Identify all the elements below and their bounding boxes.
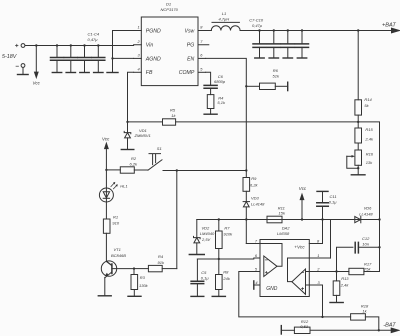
svg-text:LL4148: LL4148 — [251, 201, 265, 206]
pin 8 Vsw — [198, 30, 206, 32]
svg-text:6800p: 6800p — [214, 79, 226, 84]
svg-text:COMP: COMP — [179, 70, 195, 76]
op-amp DA2 LM358 box — [260, 240, 309, 297]
pin 1 PGND — [134, 30, 142, 32]
resistor R15 — [357, 122, 359, 128]
capacitor C12 — [355, 242, 379, 253]
svg-text:1: 1 — [317, 253, 319, 258]
resistor R7 — [218, 220, 220, 232]
pin 5 COMP — [198, 71, 206, 73]
svg-text:VT1: VT1 — [114, 247, 121, 252]
node EN/R6 — [245, 85, 247, 87]
node line A / R7 — [218, 218, 220, 220]
ground (C1) — [52, 72, 61, 74]
node C12 right — [378, 246, 380, 248]
capacitor C7 — [253, 31, 266, 59]
ground (C9) — [283, 57, 292, 59]
ground (COMP network) — [204, 113, 217, 115]
svg-text:+BAT: +BAT — [382, 23, 396, 29]
svg-text:6: 6 — [255, 253, 258, 258]
svg-text:51k: 51k — [273, 74, 280, 79]
wiper R16 — [347, 155, 358, 168]
svg-text:R14: R14 — [364, 97, 372, 102]
svg-text:15k: 15k — [279, 211, 286, 216]
svg-text:Vsw: Vsw — [184, 28, 195, 34]
capacitor C9 — [281, 31, 294, 59]
svg-text:-BAT: -BAT — [383, 322, 396, 328]
pin 4 — [254, 284, 260, 286]
wire FB pin4 down — [128, 72, 134, 122]
svg-text:R4: R4 — [158, 254, 164, 259]
node FB — [126, 121, 128, 123]
pin 7 — [254, 243, 260, 245]
transistor VT1 — [101, 261, 134, 296]
label C7-C10 — [249, 17, 264, 28]
svg-text:NCP3170: NCP3170 — [161, 7, 179, 12]
svg-text:C11: C11 — [330, 194, 337, 199]
wire EN down — [206, 58, 247, 170]
svg-text:PG: PG — [187, 43, 195, 49]
svg-text:2,4k: 2,4k — [340, 283, 350, 288]
resistor R4 (base) — [134, 268, 148, 270]
svg-text:91k: 91k — [158, 260, 165, 265]
ground (shunt left bar) — [280, 326, 282, 334]
wire COMP to compensation network — [206, 72, 211, 85]
pin 6 EN — [198, 57, 206, 59]
svg-text:10n: 10n — [362, 241, 369, 246]
svg-text:0,47μ: 0,47μ — [252, 23, 263, 28]
svg-text:130k: 130k — [139, 283, 149, 288]
pin 7 PG (stub) — [198, 44, 209, 46]
svg-text:7: 7 — [200, 39, 203, 44]
ground (R13) — [330, 302, 343, 304]
power flag Vcc (switch branch, up arrow) — [105, 143, 109, 170]
capacitor C1 — [51, 46, 64, 73]
svg-text:Vcc: Vcc — [102, 137, 110, 142]
node AGND — [111, 57, 113, 59]
wire pin3 down — [322, 285, 324, 317]
wire FB node to right vertical — [358, 122, 379, 272]
op-amp/IC D1 NCP3170 box — [141, 17, 198, 86]
svg-text:7: 7 — [255, 239, 258, 244]
svg-text:8: 8 — [200, 25, 203, 30]
label C1-C4 value — [88, 32, 100, 43]
pin 3 AGND — [134, 57, 142, 59]
svg-text:0,51: 0,51 — [300, 324, 308, 329]
svg-text:+Vcc: +Vcc — [294, 244, 305, 249]
resistor R1 — [103, 219, 110, 233]
svg-text:5: 5 — [255, 267, 258, 272]
resistor R14 — [355, 100, 362, 115]
wire pin2 up to C12 — [337, 247, 353, 271]
svg-text:R5: R5 — [170, 108, 176, 113]
svg-text:5k: 5k — [364, 103, 369, 108]
svg-text:2: 2 — [316, 267, 320, 272]
ground (C11, top bar) — [317, 190, 328, 192]
pin 6 — [254, 257, 260, 259]
svg-text:C1-C4: C1-C4 — [88, 32, 100, 37]
ground (C8) — [269, 57, 278, 59]
svg-text:C7-C10: C7-C10 — [249, 17, 264, 22]
resistor R6 — [246, 85, 259, 87]
capacitor C2 — [64, 46, 77, 73]
node input/Vcc — [35, 44, 37, 46]
pin 2 Vin — [134, 44, 142, 46]
svg-text:Vcc: Vcc — [299, 186, 307, 191]
svg-text:5,1k: 5,1k — [217, 100, 226, 105]
capacitor C5 — [191, 259, 204, 296]
node switch/EN — [245, 169, 247, 171]
switch S1 — [148, 154, 162, 171]
svg-text:13k: 13k — [366, 160, 373, 165]
capacitor C10 — [296, 31, 309, 59]
svg-text:24k: 24k — [222, 276, 230, 281]
svg-text:75k: 75k — [364, 266, 371, 271]
resistor R17 — [337, 271, 349, 273]
svg-text:L1: L1 — [222, 11, 226, 16]
ground (VD1) — [121, 149, 134, 151]
ground (C5) — [191, 295, 204, 297]
svg-text:GND: GND — [266, 286, 278, 292]
resistor R9 — [243, 178, 250, 192]
svg-text:4,7μH: 4,7μH — [219, 16, 230, 21]
ground (R6, side bar) — [287, 82, 289, 90]
svg-text:6,2k: 6,2k — [130, 162, 139, 167]
svg-text:Vcc: Vcc — [33, 81, 41, 86]
svg-text:LL4148: LL4148 — [359, 211, 373, 216]
ground (C10) — [297, 57, 306, 59]
svg-text:VD6: VD6 — [364, 206, 373, 211]
svg-text:S1: S1 — [157, 146, 162, 151]
svg-text:AGND: AGND — [145, 56, 161, 62]
ground (VT1 emitter) — [98, 295, 111, 297]
node -BAT junction — [378, 329, 380, 331]
svg-text:R9: R9 — [251, 176, 257, 181]
power flag Vcc (reference line, up arrow) — [300, 194, 304, 219]
wire shunt line — [281, 329, 294, 331]
svg-text:2,5V: 2,5V — [201, 237, 211, 242]
wire R2 to switch — [134, 169, 148, 171]
node C11 / line A — [321, 218, 323, 220]
node C7 — [258, 29, 260, 31]
svg-text:R2: R2 — [131, 156, 137, 161]
wire R18 to corner — [365, 317, 378, 330]
svg-text:R3: R3 — [140, 275, 146, 280]
wire AGND pin3 — [113, 58, 134, 72]
resistor R3 — [133, 269, 135, 275]
arrow -BAT — [391, 328, 399, 333]
capacitor C6 — [204, 85, 217, 88]
node +BAT divider — [357, 29, 359, 31]
ground bar (minus terminal) — [18, 74, 29, 76]
node C3 — [83, 44, 85, 46]
pin 8 — [309, 243, 322, 245]
LED HL1 — [99, 170, 117, 202]
wire FB line — [128, 121, 359, 123]
svg-text:1: 1 — [138, 25, 140, 30]
op-amp B triangle — [288, 258, 310, 294]
svg-text:R15: R15 — [365, 127, 373, 132]
svg-text:4: 4 — [138, 67, 141, 72]
node base — [133, 267, 135, 269]
svg-text:R6: R6 — [273, 68, 279, 73]
resistor R5 — [163, 119, 176, 125]
resistor R2 — [120, 167, 134, 173]
svg-text:910: 910 — [112, 221, 119, 226]
svg-text:1k: 1k — [171, 113, 176, 118]
node R7/R8 — [218, 258, 220, 260]
node R16 bottom — [357, 167, 359, 169]
node C2 — [70, 44, 72, 46]
wire to R2 — [106, 169, 120, 171]
wire R1 to VT1 collector — [106, 233, 112, 265]
svg-text:HL1: HL1 — [120, 183, 127, 188]
node Vcc/R2/LED — [105, 169, 107, 171]
svg-text:2: 2 — [137, 39, 141, 44]
ground (divider) — [351, 174, 365, 176]
wire pin5 to sense line — [239, 272, 351, 317]
svg-text:6: 6 — [200, 53, 203, 58]
ground (AGND) — [107, 72, 118, 74]
svg-text:BC846B: BC846B — [111, 253, 126, 258]
wire pin8 to line A — [322, 220, 324, 244]
terminal - input — [16, 64, 25, 74]
ground (VD2) — [189, 254, 204, 256]
svg-text:8: 8 — [317, 239, 320, 244]
resistor R12 shunt — [294, 327, 310, 333]
resistor R18 — [351, 314, 366, 320]
ground (C3) — [80, 72, 89, 74]
inductor L1 — [206, 22, 241, 30]
svg-text:VD2: VD2 — [202, 226, 211, 231]
svg-text:R16: R16 — [366, 152, 374, 157]
resistor R8 — [218, 259, 220, 275]
svg-text:910k: 910k — [224, 231, 234, 236]
resistor R4 (COMP) — [207, 95, 214, 109]
diode VD6 LL4148 — [355, 216, 361, 222]
wire divider top — [357, 31, 359, 100]
wire LED to R1 — [105, 202, 107, 219]
node base branch — [176, 169, 178, 171]
node C10 — [301, 29, 303, 31]
svg-text:4: 4 — [255, 280, 258, 285]
svg-text:LM4040: LM4040 — [200, 231, 215, 236]
node pin3 / sense line — [321, 316, 323, 318]
svg-text:R8: R8 — [223, 269, 229, 274]
svg-text:6,2k: 6,2k — [250, 182, 259, 187]
svg-text:R13: R13 — [341, 276, 349, 281]
node Vcc / line A — [301, 218, 303, 220]
ground (C4) — [94, 72, 103, 74]
svg-text:2,4k: 2,4k — [364, 137, 374, 142]
wire to -BAT — [310, 329, 392, 331]
zener diode VD2 LM4040 — [194, 220, 201, 255]
svg-text:3: 3 — [318, 280, 321, 285]
resistor R11 — [267, 216, 282, 223]
wire output rail — [240, 30, 392, 32]
wire PGND pin1 — [113, 31, 134, 59]
trimmer R16 — [357, 143, 359, 150]
ground (R3) — [128, 295, 141, 297]
power flag Vcc (input, down arrow) — [35, 46, 39, 78]
svg-text:DA2: DA2 — [282, 226, 291, 231]
svg-text:C5: C5 — [201, 270, 207, 275]
node C8 — [273, 29, 275, 31]
capacitor C11 — [317, 192, 329, 219]
capacitor C4 — [92, 46, 105, 73]
ground (C7) — [255, 57, 264, 59]
svg-text:1k: 1k — [362, 308, 367, 313]
wire base resistor to switch node — [176, 171, 178, 269]
wire R4 to ground — [210, 109, 212, 115]
wire reference line A — [197, 219, 380, 221]
wire pin2 feedback node — [335, 270, 337, 272]
svg-text:ZMM5V1: ZMM5V1 — [134, 133, 151, 138]
wire R14 to node — [357, 115, 359, 122]
node C4 — [97, 44, 99, 46]
svg-text:0,1μ: 0,1μ — [329, 199, 338, 204]
ground (C2) — [66, 72, 75, 74]
svg-text:Vin: Vin — [146, 43, 154, 49]
node divider/FB — [357, 121, 359, 123]
pin 4 FB — [134, 71, 142, 73]
capacitor C8 — [267, 31, 280, 59]
pin 2 — [306, 271, 337, 273]
node line A / VD3 — [245, 218, 247, 220]
wire switch to EN node — [163, 170, 246, 172]
ground (pin 4 bar) — [253, 281, 255, 289]
op-amp A triangle — [260, 243, 282, 276]
svg-text:C12: C12 — [362, 236, 370, 241]
pin 5 — [254, 271, 260, 273]
capacitor C3 — [78, 46, 91, 73]
svg-text:R1: R1 — [113, 215, 118, 220]
wire pin7 DA2 — [246, 243, 260, 245]
svg-text:PGND: PGND — [146, 28, 161, 34]
node C9 — [287, 29, 289, 31]
wire EN chain R9 — [245, 171, 247, 178]
wire input rail — [25, 45, 134, 47]
svg-text:D1: D1 — [166, 2, 171, 7]
svg-text:R7: R7 — [224, 225, 230, 230]
wire pin6 node line — [197, 258, 253, 260]
svg-text:LM358: LM358 — [277, 231, 290, 236]
svg-text:5: 5 — [200, 67, 203, 72]
wire R16 to ground — [357, 165, 359, 175]
svg-text:FB: FB — [146, 70, 153, 76]
svg-text:VD3: VD3 — [251, 195, 260, 200]
zener diode VD1 ZMM5V1 — [124, 122, 131, 150]
svg-text:0,47μ: 0,47μ — [88, 37, 99, 42]
resistor R13 — [336, 272, 338, 281]
svg-text:5-18V: 5-18V — [2, 54, 18, 60]
pin 3 — [306, 284, 323, 286]
svg-text:0,1μ: 0,1μ — [201, 276, 210, 281]
node C1 — [56, 44, 58, 46]
arrow +BAT — [392, 28, 400, 33]
terminal + input — [16, 44, 25, 48]
svg-text:3: 3 — [138, 53, 141, 58]
svg-text:EN: EN — [187, 56, 194, 62]
ground (R8) — [212, 295, 225, 297]
wire line A to pin1 — [330, 220, 332, 259]
node VD6 / right vertical — [378, 218, 380, 220]
pin 1 — [309, 257, 330, 259]
diode VD3 LL4148 — [243, 191, 249, 243]
